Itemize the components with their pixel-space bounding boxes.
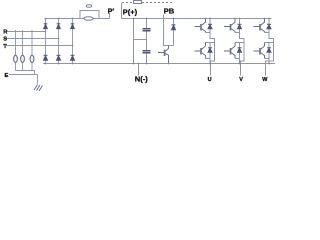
wire PB column	[163, 15, 165, 47]
diode D4 rectifier lower	[44, 55, 48, 60]
svg-text:P′: P′	[108, 8, 115, 15]
diode D11 freewheel lower V	[238, 43, 242, 59]
relay contact small oval	[86, 5, 92, 8]
wire S phase line	[6, 38, 58, 40]
transistor Q6 lower IGBT W leg	[254, 43, 265, 59]
diode D9 freewheel lower U	[208, 43, 212, 59]
MOV ZNR3	[30, 55, 34, 62]
svg-text:P(+): P(+)	[123, 8, 138, 17]
wire phase W routing loop	[266, 33, 274, 76]
terminal P' stub	[109, 14, 111, 19]
capacitor C1	[143, 29, 151, 31]
wire phase V routing loop	[240, 33, 245, 76]
diode D13 freewheel lower W	[267, 43, 271, 59]
svg-text:R: R	[3, 30, 8, 36]
wire E earth line	[9, 75, 38, 85]
wire emitter junction upper W	[265, 32, 270, 34]
wire lower collector node V	[235, 42, 244, 44]
wire emitter junction lower W	[265, 58, 270, 60]
diode D3 rectifier upper	[71, 24, 75, 29]
inrush resistor R0 oval	[84, 17, 93, 21]
MOV ZNR2	[21, 55, 25, 62]
inrush bypass contact box	[80, 11, 99, 19]
ground symbol earth	[34, 85, 43, 92]
diode D6 rectifier lower	[71, 55, 75, 60]
svg-text:N(-): N(-)	[135, 75, 148, 84]
svg-text:E: E	[5, 73, 9, 79]
diode D8 freewheel upper U	[208, 19, 212, 33]
wire phase U routing loop	[210, 33, 215, 76]
wire MOV column R	[15, 30, 17, 71]
wire MOV common bus to earth	[16, 71, 35, 75]
capacitor balance column	[133, 19, 135, 64]
wire rectifier column 1	[45, 19, 47, 64]
wire brake diode column	[173, 19, 175, 46]
transistor Q2 lower IGBT U leg	[195, 43, 206, 59]
transistor Q7 brake IGBT	[158, 46, 169, 64]
wire MOV column T	[31, 30, 33, 71]
svg-text:T: T	[3, 44, 7, 50]
transistor Q3 upper IGBT V leg	[224, 19, 235, 33]
wire N- bus bottom	[43, 63, 275, 65]
transistor Q1 upper IGBT U leg	[195, 19, 206, 33]
capacitor C2	[143, 51, 151, 53]
wire emitter junction upper U	[206, 32, 211, 34]
wire MOV column S	[22, 30, 24, 71]
diode D1 rectifier upper	[44, 24, 48, 29]
wire rectifier column 2	[58, 19, 60, 64]
wire DC+ bus top	[45, 18, 272, 20]
svg-text:W: W	[262, 77, 268, 83]
MOV ZNR1	[14, 55, 18, 62]
wire emitter to N bus V	[239, 59, 241, 64]
wire cap midpoint tie	[134, 39, 147, 41]
svg-text:S: S	[3, 37, 7, 43]
wire T phase line	[6, 45, 72, 47]
wire emitter to N bus W	[268, 59, 270, 64]
wire emitter junction upper V	[235, 32, 240, 34]
transistor Q5 upper IGBT W leg	[254, 19, 265, 33]
junction dots	[45, 18, 270, 65]
svg-text:V: V	[239, 77, 243, 83]
diode D7 brake flyback	[172, 25, 176, 30]
terminal N- stub	[138, 64, 140, 76]
diode D2 rectifier upper	[57, 24, 61, 29]
wire main cap column	[146, 19, 148, 64]
wire brake chopper node	[164, 45, 174, 47]
wire R phase line	[6, 31, 45, 33]
transistor Q4 lower IGBT V leg	[224, 43, 235, 59]
wire lower collector node W	[265, 42, 274, 44]
wire emitter to N bus U	[209, 59, 211, 64]
svg-text:PB: PB	[164, 7, 175, 16]
DC reactor option box	[134, 1, 142, 4]
dashed option jumper wire	[122, 2, 172, 4]
diode D12 freewheel upper W	[267, 19, 271, 33]
wire lower collector node U	[206, 42, 215, 44]
terminal P(+) stub	[121, 3, 123, 19]
diode D10 freewheel upper V	[238, 19, 242, 33]
wire rectifier column 3	[72, 19, 74, 64]
diode D5 rectifier lower	[57, 55, 61, 60]
wire emitter junction lower U	[206, 58, 211, 60]
svg-text:U: U	[208, 77, 212, 83]
wire emitter junction lower V	[235, 58, 240, 60]
